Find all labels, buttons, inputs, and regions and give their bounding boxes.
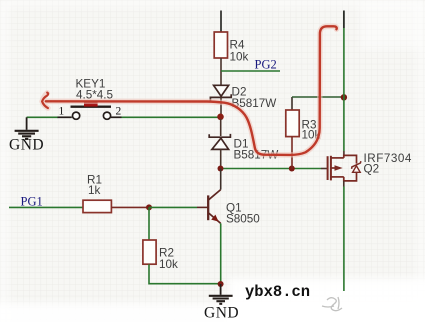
resistor R4	[214, 32, 227, 58]
annotation red curve	[46, 26, 337, 155]
annotation arrowhead	[42, 93, 48, 109]
transistor Q1 S8050	[197, 190, 260, 226]
resistor R1	[83, 174, 111, 213]
junction lower node	[218, 166, 224, 172]
diode D1 B5817W	[209, 134, 278, 162]
right rail wire	[343, 11, 345, 29]
wire R2 to bottom node	[149, 264, 221, 284]
wire D1 to lower node	[220, 149, 222, 168]
junction base node	[146, 204, 152, 210]
junction at R3 bottom	[289, 166, 295, 172]
svg-text:2: 2	[116, 106, 122, 118]
wire top feed to R4	[220, 11, 222, 33]
annotation red curve halo	[42, 26, 337, 155]
wire R4 to D2	[220, 58, 222, 85]
wire lower node to gate of Q2	[221, 168, 322, 170]
wire KEY1 pin2 to D2 node	[122, 116, 221, 118]
diode D2 B5817W	[210, 85, 276, 110]
resistor R2	[143, 240, 178, 271]
junction bottom node	[218, 281, 224, 287]
wire R1 to base node	[111, 206, 149, 208]
wire base node to Q1	[149, 206, 197, 208]
wire Q1 emitter down	[220, 223, 222, 284]
svg-text:10k: 10k	[159, 258, 178, 271]
wire node to D1	[220, 119, 222, 136]
wire R3 top to right rail	[292, 96, 344, 98]
faint scribble remnant	[322, 297, 342, 311]
ground GND bottom	[204, 284, 239, 322]
svg-text:PG2: PG2	[255, 58, 277, 72]
junction right rail	[341, 94, 347, 100]
MOSFET Q2 IRF7304	[321, 152, 412, 181]
resistor R3	[286, 97, 321, 169]
wire GND to KEY1 pin1	[27, 116, 58, 118]
junction node below D2	[217, 114, 224, 121]
wire base node down to R2	[148, 207, 150, 240]
node PG2	[221, 70, 280, 72]
svg-text:10k: 10k	[230, 51, 249, 64]
wire Q2 drain down	[343, 181, 345, 187]
switch KEY1	[58, 78, 122, 120]
svg-text:GND: GND	[204, 305, 239, 322]
ground GND left	[9, 117, 44, 153]
svg-text:ybx8.cn: ybx8.cn	[245, 283, 310, 301]
svg-text:GND: GND	[9, 137, 44, 154]
svg-text:1: 1	[59, 106, 65, 118]
wire Q1 collector up	[220, 169, 222, 190]
svg-text:S8050: S8050	[226, 213, 260, 226]
wire PG1 to R1	[9, 206, 83, 208]
svg-text:1k: 1k	[88, 184, 101, 197]
wire D2 to node	[220, 98, 222, 118]
svg-text:PG1: PG1	[21, 195, 43, 209]
svg-text:Q2: Q2	[364, 163, 380, 176]
